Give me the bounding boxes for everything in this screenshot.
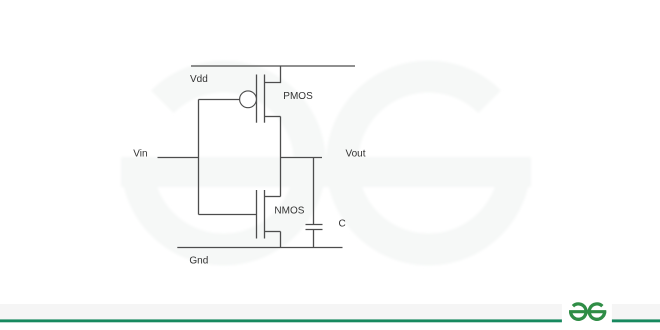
svg-text:C: C — [339, 219, 346, 230]
brand line left — [0, 319, 562, 322]
svg-text:Vin: Vin — [133, 148, 147, 159]
GeeksforGeeks logo — [569, 304, 606, 319]
wire Gnd rail — [177, 247, 342, 249]
watermark — [121, 77, 531, 250]
wire Vdd rail — [191, 65, 355, 67]
svg-text:Vdd: Vdd — [190, 74, 208, 85]
svg-text:NMOS: NMOS — [274, 205, 304, 216]
footer strip left — [0, 304, 562, 320]
transistor M2 NMOS — [257, 190, 281, 239]
wire NMOS source to ground — [280, 232, 282, 248]
footer strip right — [612, 304, 660, 320]
wire PMOS drain to NMOS drain — [280, 117, 282, 197]
transistor M1 PMOS — [240, 75, 281, 123]
wire NMOS gate to input node — [199, 214, 257, 216]
wire PMOS gate to input node — [199, 99, 240, 101]
brand line right — [612, 319, 660, 322]
wire Vin — [158, 157, 199, 159]
svg-text:Vout: Vout — [346, 149, 366, 160]
capacitor C — [306, 158, 323, 248]
wire PMOS source to Vdd rail — [265, 66, 281, 83]
wire Vout — [281, 157, 323, 159]
svg-text:Gnd: Gnd — [189, 256, 208, 267]
svg-text:PMOS: PMOS — [283, 91, 313, 102]
wire input node vertical — [198, 100, 200, 215]
